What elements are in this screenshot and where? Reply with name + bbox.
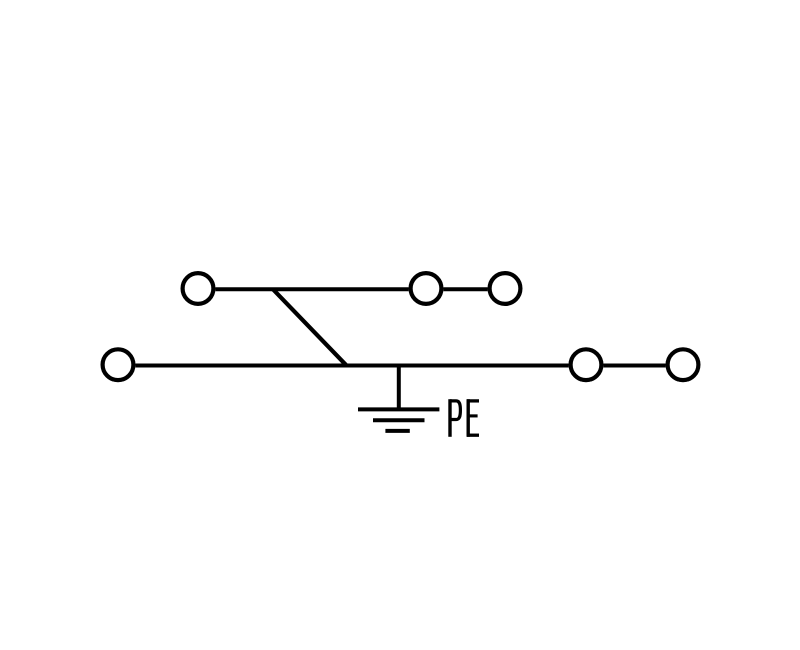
wire ground stem	[397, 366, 401, 410]
ground (PE earth symbol) bar 1	[358, 407, 439, 411]
ground (PE earth symbol) bar 2	[373, 418, 425, 422]
label PE : letter P	[450, 399, 460, 437]
label PE : letter E	[467, 399, 479, 437]
wire diagonal bridge (top bus to bottom bus)	[273, 289, 347, 365]
terminal clamp circle 2 (top-middle)	[411, 273, 442, 304]
terminal clamp circle 6 (bottom-right)	[668, 349, 699, 380]
wire top link (clamp2 to clamp3)	[443, 287, 487, 291]
terminal clamp circle 4 (bottom-left)	[103, 349, 134, 380]
terminal clamp circle 3 (top-right)	[490, 273, 521, 304]
wire bottom link (clamp5 to clamp6)	[603, 364, 665, 368]
ground (PE earth symbol) bar 3	[385, 429, 409, 433]
terminal clamp circle 1 (top-left)	[183, 273, 214, 304]
terminal clamp circle 5 (bottom-middle)	[571, 349, 602, 380]
wire top bus (clamp1 to clamp2)	[215, 287, 408, 291]
wire bottom bus (clamp4 to clamp5)	[135, 364, 568, 368]
